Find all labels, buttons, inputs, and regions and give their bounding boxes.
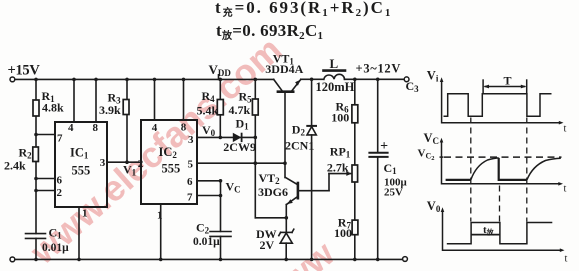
svg-text:3: 3 xyxy=(100,157,106,169)
svg-text:2.7k: 2.7k xyxy=(327,160,349,174)
svg-text:4.7k: 4.7k xyxy=(229,103,251,117)
svg-text:3.9k: 3.9k xyxy=(99,103,121,117)
svg-text:4.8k: 4.8k xyxy=(42,101,64,115)
svg-text:2.4k: 2.4k xyxy=(4,159,26,173)
svg-text:5: 5 xyxy=(188,158,194,170)
svg-text:0.01μ: 0.01μ xyxy=(42,242,69,254)
svg-text:L: L xyxy=(330,56,339,71)
svg-text:+3~12V: +3~12V xyxy=(356,61,402,75)
svg-text:+: + xyxy=(380,139,388,154)
svg-text:4: 4 xyxy=(152,122,158,134)
svg-text:2CW9: 2CW9 xyxy=(223,140,256,154)
svg-text:100: 100 xyxy=(331,111,349,125)
svg-text:7: 7 xyxy=(187,192,193,204)
svg-text:6: 6 xyxy=(57,174,63,186)
svg-text:t放=0. 693R2C1: t放=0. 693R2C1 xyxy=(216,21,323,42)
svg-text:4: 4 xyxy=(68,122,74,134)
svg-text:25V: 25V xyxy=(384,187,403,199)
svg-text:t: t xyxy=(564,124,567,135)
svg-text:120mH: 120mH xyxy=(316,80,355,94)
svg-text:8: 8 xyxy=(93,122,99,134)
svg-text:2V: 2V xyxy=(260,238,275,252)
svg-text:3DG6: 3DG6 xyxy=(258,185,288,199)
svg-text:1: 1 xyxy=(82,208,88,220)
svg-text:5.4k: 5.4k xyxy=(197,103,219,117)
svg-text:t: t xyxy=(565,254,568,265)
svg-text:555: 555 xyxy=(162,162,181,176)
svg-text:1: 1 xyxy=(157,209,163,221)
svg-text:3DD4A: 3DD4A xyxy=(265,62,303,76)
svg-text:6: 6 xyxy=(187,176,193,188)
svg-text:T: T xyxy=(504,73,512,87)
svg-text:8: 8 xyxy=(181,121,187,133)
svg-text:t充=0. 693(R1+R2)C1: t充=0. 693(R1+R2)C1 xyxy=(215,0,392,19)
svg-text:2CN1: 2CN1 xyxy=(285,139,314,153)
svg-text:+15V: +15V xyxy=(8,63,41,79)
svg-text:2: 2 xyxy=(57,187,63,199)
svg-text:100: 100 xyxy=(334,226,352,240)
svg-text:555: 555 xyxy=(72,164,91,178)
svg-text:7: 7 xyxy=(57,133,63,145)
svg-text:3: 3 xyxy=(188,134,194,146)
svg-text:t: t xyxy=(564,184,567,195)
svg-text:2: 2 xyxy=(138,158,144,170)
svg-text:0.01μ: 0.01μ xyxy=(193,236,220,248)
